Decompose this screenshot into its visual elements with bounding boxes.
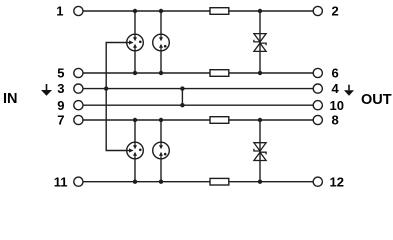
terminal 9	[74, 101, 83, 110]
svg-text:IN: IN	[3, 91, 18, 107]
wire vertical GDT branch x161 top	[160, 11, 162, 73]
suppressor diode D2 (bidirectional, bottom)	[254, 143, 266, 161]
svg-text:12: 12	[330, 174, 344, 189]
junction row11 x161	[159, 180, 163, 184]
terminal 2	[313, 6, 322, 15]
IN flow arrow	[41, 84, 52, 96]
terminal 12	[313, 177, 322, 186]
wire row 5-6 left segment	[83, 72, 210, 74]
junction row7 x135	[133, 118, 137, 122]
junction row11 x260	[258, 180, 262, 184]
wire row 7-8 left segment	[83, 119, 210, 121]
gas discharge tube F1 (3-electrode, top left)	[127, 34, 144, 51]
resistor R4	[210, 178, 229, 185]
junction row5 x260	[258, 71, 262, 75]
svg-text:5: 5	[57, 66, 64, 81]
svg-text:11: 11	[54, 174, 68, 189]
terminal 4	[313, 84, 322, 93]
resistor R2	[210, 70, 229, 77]
junction row11 x135	[133, 180, 137, 184]
terminal 7	[74, 115, 83, 124]
svg-text:10: 10	[330, 98, 344, 113]
junction row5 x135	[133, 71, 137, 75]
svg-text:2: 2	[332, 4, 339, 19]
terminal 6	[313, 68, 322, 77]
wire vertical GDT branch x161 bottom	[160, 120, 162, 182]
wire row 11-12 right segment	[229, 181, 313, 183]
suppressor diode D1 (bidirectional, top)	[254, 34, 266, 52]
wire vertical TVS branch x260 bottom	[259, 120, 261, 182]
wire vertical GDT branch x135 bottom	[134, 120, 136, 182]
svg-text:OUT: OUT	[361, 92, 392, 108]
wire row 1-2 right segment	[229, 10, 313, 12]
wire row 11-12 left segment	[83, 181, 210, 183]
svg-text:9: 9	[57, 98, 64, 113]
junction row5 x161	[159, 71, 163, 75]
wire vertical GDT branch x135 top	[134, 11, 136, 73]
terminal 10	[313, 101, 322, 110]
svg-text:8: 8	[332, 113, 339, 128]
terminal 3	[74, 84, 83, 93]
junction at x106 row 3-4	[104, 86, 108, 90]
wire row 5-6 right segment	[229, 72, 313, 74]
junction at x182 row 3-4	[180, 86, 184, 90]
terminal 1	[74, 6, 83, 15]
gas discharge tube F2 (top right)	[153, 34, 170, 51]
junction at x182 row 9-10	[180, 103, 184, 107]
svg-text:4: 4	[332, 81, 340, 96]
wire ground electrode branch x106	[106, 43, 127, 151]
resistor R3	[210, 117, 229, 124]
wire row 7-8 right segment	[229, 119, 313, 121]
terminal 8	[313, 115, 322, 124]
junction row7 x260	[258, 118, 262, 122]
junction row7 x161	[159, 118, 163, 122]
junction row1 x135	[133, 9, 137, 13]
svg-text:3: 3	[57, 81, 64, 96]
svg-text:1: 1	[56, 4, 63, 19]
wire vertical TVS branch x260 top	[259, 11, 261, 73]
terminal 11	[74, 177, 83, 186]
resistor R1	[210, 8, 229, 15]
OUT flow arrow	[344, 85, 354, 96]
wire connector x182 rows 3-4 to 9-10	[181, 89, 183, 106]
junction row1 x161	[159, 9, 163, 13]
gas discharge tube F4 (bottom right)	[153, 142, 170, 159]
svg-text:6: 6	[332, 66, 339, 81]
wire row 1-2 left segment	[83, 10, 210, 12]
wire row 3-4	[83, 88, 313, 90]
svg-text:7: 7	[57, 113, 64, 128]
junction row1 x260	[258, 9, 262, 13]
terminal 5	[74, 68, 83, 77]
wire row 9-10	[83, 104, 313, 106]
gas discharge tube F3 (3-electrode, bottom left)	[127, 142, 144, 159]
